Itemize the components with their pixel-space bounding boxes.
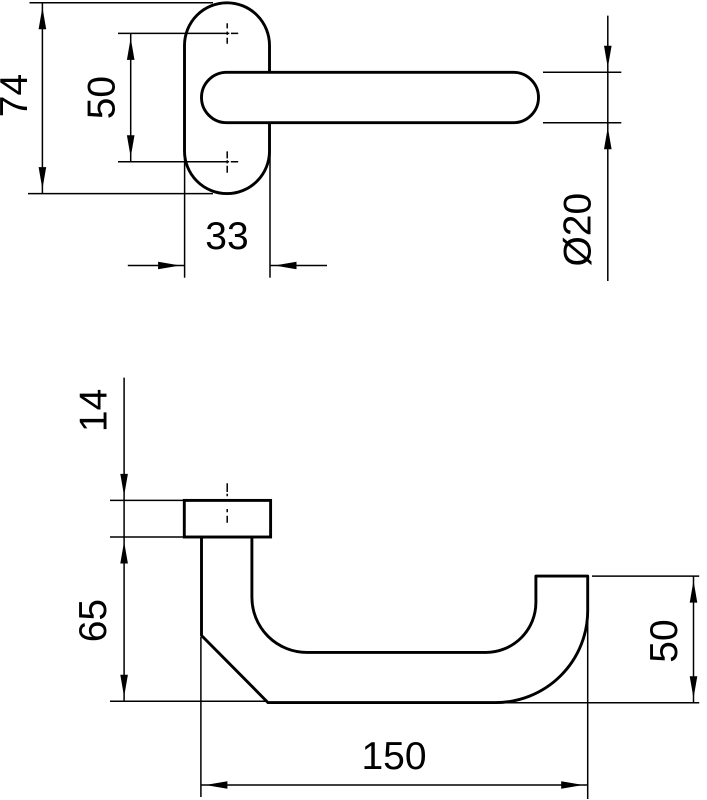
svg-text:Ø20: Ø20 [556,193,599,267]
svg-text:150: 150 [361,735,426,778]
svg-text:50: 50 [643,619,686,662]
svg-text:14: 14 [73,389,116,432]
svg-text:50: 50 [81,76,124,119]
svg-text:33: 33 [205,215,248,258]
svg-text:65: 65 [72,599,115,642]
svg-text:74: 74 [0,74,36,117]
